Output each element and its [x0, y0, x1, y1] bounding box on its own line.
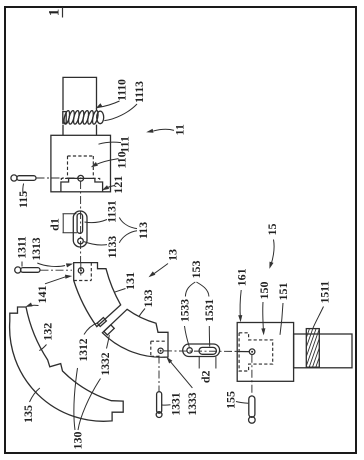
svg-text:1312: 1312: [78, 338, 90, 361]
svg-text:151: 151: [276, 283, 290, 301]
svg-text:1313: 1313: [31, 237, 43, 260]
svg-text:155: 155: [224, 391, 238, 409]
svg-text:d2: d2: [199, 370, 213, 383]
svg-text:141: 141: [35, 286, 49, 304]
svg-text:1333: 1333: [187, 392, 199, 415]
svg-text:121: 121: [111, 176, 125, 194]
svg-text:153: 153: [189, 261, 203, 279]
svg-text:1133: 1133: [107, 236, 119, 259]
svg-text:1531: 1531: [204, 299, 216, 322]
svg-text:1311: 1311: [16, 236, 28, 259]
svg-text:113: 113: [136, 222, 150, 239]
svg-text:1110: 1110: [117, 79, 129, 101]
svg-text:1511: 1511: [319, 281, 331, 304]
svg-text:131: 131: [123, 272, 137, 290]
svg-text:1533: 1533: [180, 299, 192, 322]
svg-text:133: 133: [141, 290, 155, 308]
svg-text:111: 111: [118, 136, 132, 153]
svg-text:161: 161: [235, 268, 249, 286]
svg-text:15: 15: [265, 224, 279, 236]
svg-text:1: 1: [47, 9, 63, 17]
svg-text:11: 11: [173, 124, 187, 135]
svg-text:150: 150: [257, 282, 271, 300]
svg-text:1131: 1131: [107, 200, 119, 223]
svg-text:130: 130: [71, 432, 85, 450]
svg-text:1113: 1113: [134, 81, 146, 103]
svg-text:d1: d1: [48, 218, 62, 231]
svg-text:132: 132: [41, 323, 55, 341]
svg-text:1331: 1331: [170, 392, 182, 415]
svg-text:1332: 1332: [100, 352, 112, 375]
svg-text:13: 13: [166, 249, 180, 261]
svg-text:110: 110: [115, 151, 129, 168]
svg-text:135: 135: [21, 405, 35, 423]
